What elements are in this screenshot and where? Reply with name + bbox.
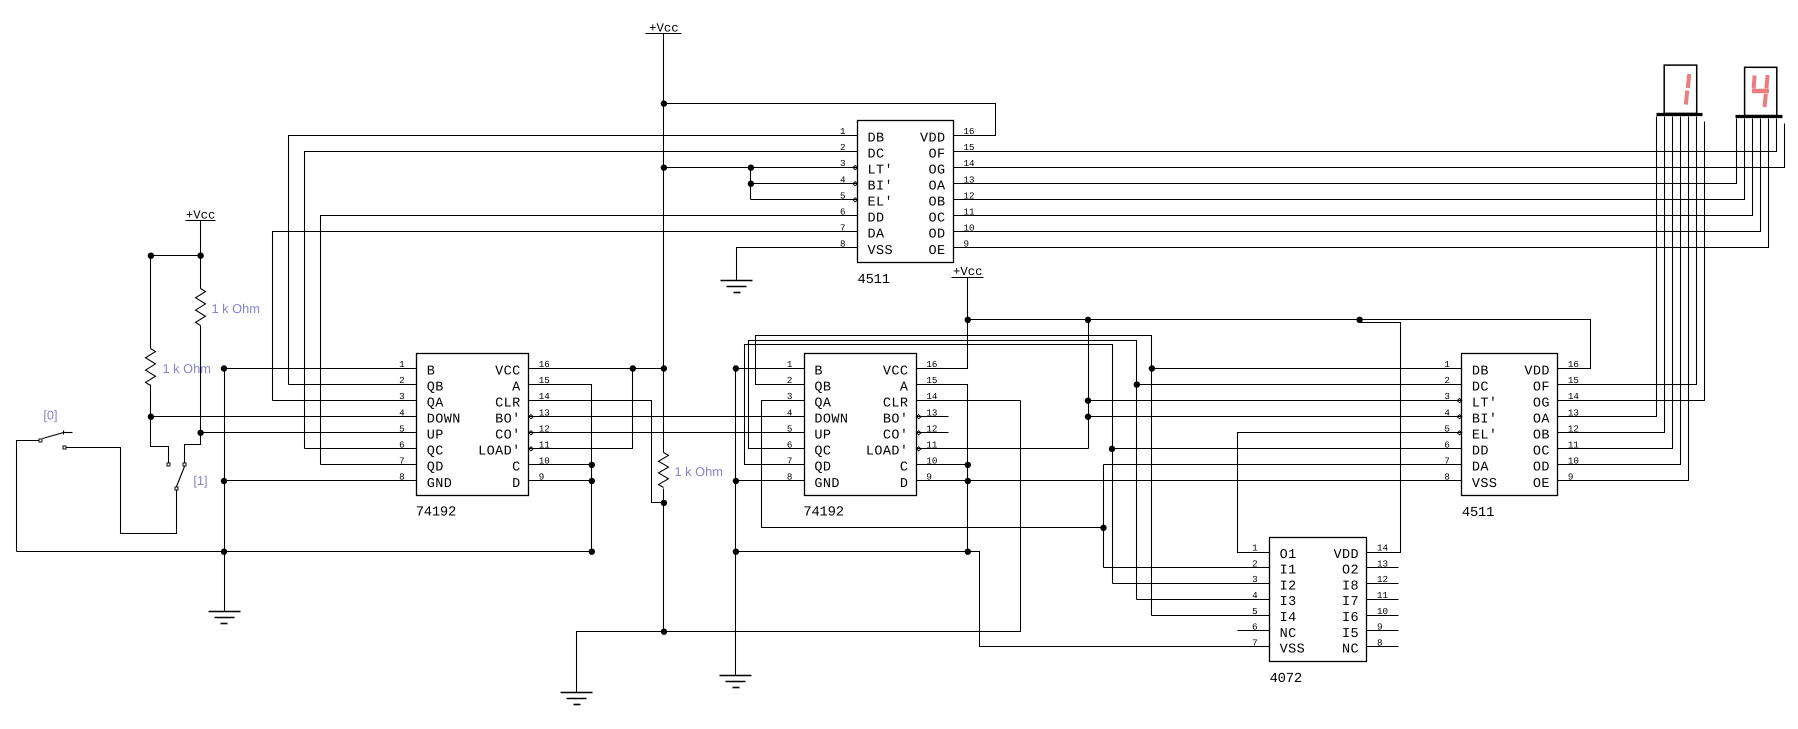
svg-text:OF: OF — [1533, 380, 1550, 395]
wire U4.LT from Vcc branch — [1089, 400, 1462, 402]
svg-text:QC: QC — [814, 445, 831, 460]
svg-text:D: D — [512, 477, 521, 492]
wire stub UP junction to switch S2 right throw — [185, 433, 201, 463]
wire BI-EL tie link vertical — [750, 168, 752, 200]
wire R2 bottom lead to DOWN row — [150, 385, 152, 417]
svg-text:OD: OD — [928, 228, 945, 243]
junction BI link — [748, 181, 754, 187]
svg-text:DC: DC — [1472, 380, 1489, 395]
junction R1/UP/switch stub — [197, 430, 203, 436]
svg-text:VDD: VDD — [1524, 364, 1550, 379]
svg-text:DB: DB — [868, 131, 885, 146]
wire U1.OD to display2 — [954, 119, 1761, 232]
switch S1 [0] lever end tick — [63, 431, 65, 435]
wire QA riser DA2 to I1 — [1103, 465, 1105, 568]
svg-text:QC: QC — [427, 445, 444, 460]
switch S1 [0] lever — [43, 433, 64, 439]
stub U5 pin8 NC right — [1367, 646, 1399, 648]
svg-text:4: 4 — [399, 407, 405, 418]
svg-text:BI': BI' — [1472, 413, 1498, 428]
wire U1.BI — [751, 183, 858, 185]
wire U2.GND to ground vertical — [225, 480, 417, 482]
junction B/GND vertical at right rail — [733, 549, 739, 555]
svg-text:[0]: [0] — [43, 408, 57, 423]
svg-text:GND: GND — [814, 477, 840, 492]
svg-text:OF: OF — [928, 147, 945, 162]
svg-text:I6: I6 — [1342, 611, 1359, 626]
svg-text:D: D — [900, 477, 909, 492]
svg-text:CO': CO' — [495, 429, 521, 444]
svg-text:DOWN: DOWN — [427, 413, 461, 428]
wire U5.I4 from QB riser — [1152, 615, 1270, 617]
ground G2 (main left) — [224, 552, 226, 612]
svg-text:16: 16 — [964, 126, 975, 137]
resistor R2 1k (left) — [146, 349, 156, 386]
wire U1.DB from Q-B of U2: up at x=288.5 then right — [289, 136, 858, 385]
wire U4.BI from Vcc branch — [1089, 416, 1462, 418]
wire R2 top lead — [150, 256, 152, 349]
junction R3 lead / CLR bottom rail — [661, 629, 667, 635]
svg-text:I3: I3 — [1280, 595, 1297, 610]
wire U3.GND to vertical — [736, 480, 805, 482]
svg-text:4072: 4072 — [1270, 672, 1302, 687]
wire U5.I1 from QA riser — [1104, 567, 1270, 569]
junction U3.D — [965, 478, 971, 484]
wire U4.OB to display1 — [1558, 117, 1665, 433]
svg-text:NC: NC — [1342, 643, 1359, 658]
svg-text:LOAD': LOAD' — [866, 445, 909, 460]
svg-text:QB: QB — [427, 380, 444, 395]
digit 4 segment g (DS2) — [1752, 89, 1769, 94]
wire U4.OF to display1 — [1558, 117, 1697, 385]
wire VSS jog to 4072 VSS — [968, 552, 1270, 647]
IC U3 74192 (counter 2) — [805, 354, 917, 496]
svg-text:1 k Ohm: 1 k Ohm — [163, 361, 211, 376]
svg-text:OD: OD — [1533, 461, 1550, 476]
wire U2.QA from riser — [273, 400, 417, 402]
svg-text:DOWN: DOWN — [814, 413, 848, 428]
stub U5.NC left — [1238, 630, 1270, 632]
junction U3.C — [965, 462, 971, 468]
junction ACD/ground rail — [589, 549, 595, 555]
wire U2.CLR to R3 bottom — [529, 401, 664, 503]
wire U4.DD from QD riser — [1113, 448, 1462, 450]
switch S1 [0] input contact — [39, 439, 42, 442]
junction U3.B corner — [733, 365, 739, 371]
wire U2.D to ACD vertical — [529, 480, 592, 482]
svg-text:C: C — [900, 461, 909, 476]
wire U1.EL — [751, 199, 858, 201]
stub U5 pin13 O2 — [1367, 567, 1399, 569]
svg-text:QB: QB — [814, 380, 831, 395]
svg-text:DA: DA — [1472, 461, 1490, 476]
junction B corner — [221, 365, 227, 371]
junction BI2 — [1085, 414, 1091, 420]
svg-text:4511: 4511 — [858, 273, 890, 288]
svg-text:OB: OB — [1533, 429, 1550, 444]
wire U3.D / U4.VSS row — [917, 480, 1462, 482]
wire U3.VCC up to rail — [917, 320, 968, 369]
svg-text:VSS: VSS — [1472, 477, 1498, 492]
svg-text:QD: QD — [814, 461, 831, 476]
junction Vcc branch at rail — [1085, 317, 1091, 323]
wire U1.LT tie to Vcc — [664, 167, 858, 169]
digit 1 segment c (DS1) — [1686, 91, 1688, 105]
seven segment display DS1 (left digit) — [1664, 65, 1697, 113]
svg-text:EL': EL' — [868, 196, 894, 211]
svg-text:A: A — [900, 380, 909, 395]
svg-text:LT': LT' — [868, 163, 894, 178]
digit 4 segment c (DS2) — [1765, 94, 1766, 107]
svg-text:GND: GND — [427, 477, 453, 492]
junction VCC/LOAD riser — [630, 365, 636, 371]
svg-text:BI': BI' — [868, 180, 894, 195]
svg-text:I7: I7 — [1342, 595, 1359, 610]
seven segment display DS2 (right digit) — [1745, 67, 1777, 115]
svg-text:B: B — [427, 364, 436, 379]
junction DD/QD riser — [1109, 446, 1115, 452]
wire U2.A down ACD vertical — [529, 385, 592, 552]
svg-text:VSS: VSS — [868, 244, 894, 259]
svg-text:OA: OA — [1533, 413, 1551, 428]
junction LT/BI link top — [748, 164, 754, 170]
svg-text:8: 8 — [1444, 472, 1450, 483]
svg-text:[1]: [1] — [193, 473, 207, 488]
wire DOWN row: R2 to U2 pin4 — [151, 416, 417, 418]
svg-text:DB: DB — [1472, 364, 1489, 379]
wire U1.OC to display2 — [954, 119, 1753, 216]
wire U5.VDD up to Vcc rail — [1360, 323, 1401, 553]
junction V1/VDD-U1 — [661, 100, 667, 106]
svg-text:CLR: CLR — [883, 396, 909, 411]
junction CLR/R3 — [661, 500, 667, 506]
svg-text:UP: UP — [427, 429, 444, 444]
wire U4.DA from QA riser — [1104, 464, 1462, 466]
wire U2.QD from riser — [321, 464, 417, 466]
svg-text:LOAD': LOAD' — [478, 445, 521, 460]
svg-text:OB: OB — [928, 196, 945, 211]
wire U5.I2 from QD riser — [1113, 583, 1270, 585]
switch S1 [0] lever end stub — [64, 432, 73, 434]
svg-text:OE: OE — [928, 244, 945, 259]
wire U4.OD to display1 — [1558, 117, 1681, 465]
wire U4.DB from QB riser — [1152, 368, 1462, 370]
svg-text:VCC: VCC — [495, 364, 521, 379]
junction V2 branch left end — [148, 253, 154, 259]
svg-text:O2: O2 — [1342, 564, 1359, 579]
wire U3.B from B/GND vertical — [736, 368, 805, 370]
ground G1 (U1 VSS) — [721, 280, 753, 282]
stub U3.BO' — [917, 416, 949, 418]
digit 4 segment f (DS2) — [1754, 76, 1755, 89]
svg-text:OC: OC — [1533, 445, 1550, 460]
svg-text:1 k Ohm: 1 k Ohm — [675, 464, 723, 479]
wire U2.B from ground vertical — [225, 368, 417, 370]
svg-text:EL': EL' — [1472, 429, 1498, 444]
wire U1.VSS to ground — [737, 248, 858, 281]
svg-text:NC: NC — [1280, 627, 1297, 642]
svg-text:I1: I1 — [1280, 564, 1297, 579]
junction QA joins riser — [1100, 525, 1106, 531]
resistor R3 1k (Vcc pull) — [659, 453, 669, 488]
ground G3 (CLR net) — [561, 692, 593, 694]
IC U5 4072 (dual 4-input OR) — [1270, 538, 1367, 662]
IC U4 4511 (right BCD to 7-seg decoder) — [1462, 354, 1558, 496]
display DS2 base bar — [1736, 115, 1783, 118]
switch S1 [0] input wire from left rail — [17, 441, 41, 552]
wire R1 bottom lead to UP row — [200, 326, 202, 433]
wire R3 bottom lead — [663, 489, 665, 632]
wire V3 lead down to rail — [967, 278, 969, 320]
wire U1.OB to display2 — [954, 119, 1745, 200]
wire U4.OG to display1 — [1558, 122, 1705, 401]
wire U3.CLR right and down to CLR rail — [917, 400, 1021, 402]
svg-text:16: 16 — [1568, 359, 1579, 370]
wire U3.QA feedback: left, down, right, up/down riser — [762, 401, 1104, 528]
svg-text:BO': BO' — [495, 413, 521, 428]
wire B/GND vertical down to ground G4 — [735, 369, 737, 676]
wire U3.C join — [917, 464, 968, 466]
IC U1 4511 (top BCD to 7-seg decoder) — [858, 121, 954, 263]
svg-text:OG: OG — [928, 163, 945, 178]
svg-text:UP: UP — [814, 429, 831, 444]
svg-text:VCC: VCC — [883, 364, 909, 379]
svg-text:5: 5 — [787, 423, 793, 434]
stub U3.CO' — [917, 432, 949, 434]
svg-text:QA: QA — [427, 396, 445, 411]
wire stub DOWN junction to switch S2 left throw — [151, 417, 169, 463]
junction VDD branch at rail — [1356, 317, 1362, 323]
svg-text:BO': BO' — [883, 413, 909, 428]
digit 1 segment b (DS1) — [1688, 74, 1690, 88]
junction V2 branch on lead — [197, 253, 203, 259]
junction VCC/Vcc vertical — [661, 365, 667, 371]
svg-text:CO': CO' — [883, 429, 909, 444]
svg-text:OC: OC — [928, 212, 945, 227]
svg-text:DD: DD — [1472, 445, 1489, 460]
wire U5.I3 from QC riser — [1137, 599, 1270, 601]
svg-text:DD: DD — [868, 212, 885, 227]
stub U5 pin9 I5 — [1367, 630, 1399, 632]
svg-text:B: B — [814, 364, 823, 379]
svg-text:QA: QA — [814, 396, 832, 411]
wire U3.QD feedback — [745, 345, 1113, 584]
svg-text:VDD: VDD — [1333, 548, 1359, 563]
svg-text:74192: 74192 — [416, 505, 456, 520]
wire V1 lead down to resistor R3 top — [663, 34, 665, 453]
wire U3.QB feedback: left, up, right to DB2 riser — [756, 336, 1152, 616]
junction right rail end — [965, 549, 971, 555]
svg-text:DC: DC — [868, 147, 885, 162]
wire VDD rail of U1: pin16 right, up, left to V1 — [664, 104, 996, 136]
stub U5 pin12 I8 — [1367, 583, 1399, 585]
junction C/ACD — [589, 462, 595, 468]
stub U5 pin11 I7 — [1367, 599, 1399, 601]
svg-text:4511: 4511 — [1462, 506, 1494, 521]
ground G4 (U3 ground) — [720, 675, 752, 677]
svg-text:A: A — [512, 380, 521, 395]
svg-text:I2: I2 — [1280, 579, 1297, 594]
switch S1 [0] output contact — [63, 446, 66, 449]
svg-text:1 k Ohm: 1 k Ohm — [212, 301, 260, 316]
wire U4.OC to display1 — [1558, 117, 1673, 449]
wire U1.OG to display2 — [954, 124, 1785, 168]
wire U3.LOAD' to Vcc branch — [917, 448, 1089, 450]
wire ground vertical x=224 — [224, 369, 226, 552]
svg-text:O1: O1 — [1280, 548, 1297, 563]
wire UP row: R1 to U2 pin5 — [201, 432, 417, 434]
stub U5 pin10 I6 — [1367, 615, 1399, 617]
wire U2.C to ACD vertical — [529, 464, 592, 466]
wire Vcc branch vertical (rail to LOAD2/LT2/BI2) — [1088, 320, 1090, 449]
switch S2 [1] throw contact right — [183, 463, 186, 466]
svg-text:LT': LT' — [1472, 396, 1498, 411]
wire U3.QC feedback — [749, 341, 1137, 600]
switch S2 [1] throw contact left — [167, 463, 170, 466]
resistor R1 1k (right) — [196, 289, 206, 326]
switch S2 [1] common contact — [175, 487, 178, 490]
wire CLR bottom rail to ground G3 and U3 CLR — [577, 401, 1021, 693]
wire U1.OF to display2 — [954, 119, 1777, 152]
svg-text:VSS: VSS — [1280, 643, 1306, 658]
svg-text:OA: OA — [928, 180, 946, 195]
svg-text:OG: OG — [1533, 396, 1550, 411]
wire U2.LOAD' riser to VCC row — [529, 369, 633, 449]
wire U2.QB from riser — [289, 384, 417, 386]
wire U1.OE to display2 — [954, 119, 1769, 248]
wire U2.BO' to U3.DOWN — [529, 416, 805, 418]
svg-text:C: C — [512, 461, 521, 476]
junction LT/Vcc — [661, 164, 667, 170]
wire U2.QC from riser — [305, 448, 417, 450]
digit 4 segment b (DS2) — [1766, 75, 1767, 89]
junction D/ACD — [589, 478, 595, 484]
junction LT2 — [1085, 397, 1091, 403]
svg-text:DA: DA — [868, 228, 886, 243]
wire V2 lead down to resistor R1 — [200, 221, 202, 289]
svg-text:1: 1 — [1252, 543, 1258, 554]
svg-text:QD: QD — [427, 461, 444, 476]
wire U2.VCC right to Vcc vertical — [529, 368, 664, 370]
junction R2/DOWN/switch stub — [148, 414, 154, 420]
svg-text:7: 7 — [1252, 637, 1258, 648]
wire U4.DC from QC riser — [1137, 384, 1462, 386]
svg-text:74192: 74192 — [803, 505, 843, 520]
wire U1.OA to display2 — [954, 119, 1737, 184]
wire U1.DA vertical x=272 — [273, 232, 858, 401]
wire V2 branch left — [151, 255, 201, 257]
svg-text:14: 14 — [1377, 543, 1389, 554]
svg-text:4: 4 — [787, 407, 793, 418]
wire U3.A down to right rail — [917, 385, 968, 552]
junction V3/rail/U3.VCC — [965, 317, 971, 323]
svg-text:OE: OE — [1533, 477, 1550, 492]
svg-text:VDD: VDD — [920, 131, 946, 146]
svg-text:5: 5 — [399, 423, 405, 434]
svg-text:I8: I8 — [1342, 579, 1359, 594]
svg-text:I5: I5 — [1342, 627, 1359, 642]
display DS1 base bar — [1657, 113, 1703, 116]
wire U4.OA to display1 — [1558, 117, 1657, 417]
svg-text:CLR: CLR — [495, 396, 521, 411]
wire U4.EL from 4072 O1 — [1238, 433, 1462, 553]
wire U1.DC from Q-A? vertical x=304.5 — [305, 152, 858, 449]
wire S2 common down-left to S1 output — [67, 448, 177, 534]
switch S2 [1] lever — [177, 467, 185, 487]
junction ground vertical/bottom rail — [221, 549, 227, 555]
junction GND row — [221, 478, 227, 484]
wire Vcc rail to U4 VDD — [968, 320, 1591, 369]
junction U3.GND — [733, 478, 739, 484]
wire U2.CO' to U3.UP — [529, 432, 805, 434]
wire bottom left ground rail — [17, 551, 592, 553]
wire bottom right ground rail — [736, 551, 968, 553]
svg-text:I4: I4 — [1280, 611, 1297, 626]
junction DC/QC riser — [1134, 381, 1140, 387]
wire U1.DD vertical x=320.5 — [321, 216, 858, 465]
junction DB/QB riser — [1149, 365, 1155, 371]
IC U2 74192 (counter 1) — [417, 354, 529, 496]
wire U4.OE to display1 — [1558, 117, 1689, 481]
